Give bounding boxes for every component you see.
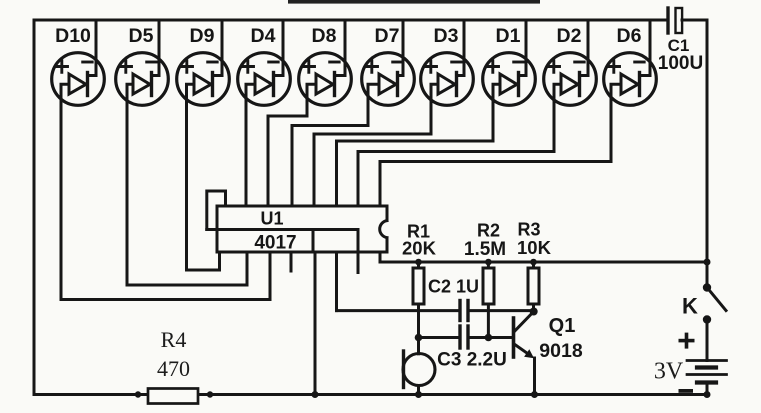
LED D7: [362, 25, 415, 105]
svg-text:C3 2.2U: C3 2.2U: [437, 350, 507, 371]
wire: cathode of D6 to top bus: [640, 20, 651, 76]
svg-text:D9: D9: [190, 25, 215, 47]
node right rail / R-rail: [704, 259, 711, 266]
node mic ground: [415, 391, 422, 398]
wire: cathode of D8 to top bus: [335, 20, 346, 76]
wire: U1 pin to R-rail: [380, 252, 707, 262]
node battery ground: [704, 391, 711, 398]
svg-text:U1: U1: [260, 209, 283, 229]
svg-text:D8: D8: [312, 25, 337, 47]
wire: U1 pin to ground rail: [314, 252, 317, 395]
battery BT1 3V: [654, 333, 727, 393]
wire: cathode of D5 to top bus: [152, 20, 160, 76]
node emitter ground: [531, 391, 538, 398]
transistor Q1 9018: [514, 312, 583, 363]
node R4 right lead: [207, 391, 213, 397]
node R3 top: [530, 259, 537, 266]
wire: anode of D4 to U1: [246, 84, 255, 206]
wire: cathode of D4 to top bus: [274, 20, 284, 76]
svg-text:1.5M: 1.5M: [464, 239, 506, 260]
wire: U1 unconnected pin stub: [290, 252, 293, 271]
LED D8: [299, 25, 352, 105]
microphone MIC: [403, 351, 435, 388]
node R1 top: [415, 259, 422, 266]
node R4 left lead: [135, 391, 141, 397]
wire: battery to ground rail: [706, 383, 709, 395]
node R2 top: [485, 259, 492, 266]
wire: cathode of D3 to top bus: [457, 20, 465, 76]
LED D6: [604, 25, 657, 105]
wire: cathode of D7 to top bus: [398, 20, 404, 76]
LED D4: [238, 25, 291, 105]
resistor R4: [148, 327, 198, 404]
svg-text:D3: D3: [434, 25, 459, 47]
svg-text:470: 470: [157, 356, 190, 381]
svg-text:D5: D5: [129, 25, 154, 47]
wire: left border rail: [33, 20, 36, 395]
wire: U1 pin down to C2 net: [335, 252, 338, 311]
wire: anode of D6 to U1: [380, 84, 621, 206]
svg-text:9018: 9018: [539, 340, 583, 362]
resistor R2: [464, 221, 506, 338]
LED D5: [116, 25, 169, 105]
wire: cathode of D2 to top bus: [580, 20, 589, 76]
LED D9: [177, 25, 230, 105]
capacitor C2: [428, 277, 479, 321]
wire: anode of D8 to U1: [268, 84, 316, 206]
wire: mic to ground rail: [417, 386, 420, 395]
svg-text:C2 1U: C2 1U: [428, 277, 479, 297]
node switch upper terminal: [703, 283, 711, 291]
LED D3: [421, 25, 474, 105]
node switch lower terminal: [703, 315, 711, 323]
op IC U1 4017: [207, 206, 389, 273]
resistor R3: [517, 220, 552, 312]
capacitor C3: [437, 326, 507, 371]
wire: anode of D10 to U1: [61, 84, 270, 299]
svg-text:Q1: Q1: [549, 315, 576, 337]
node U1 ground: [312, 391, 319, 398]
svg-text:4017: 4017: [254, 233, 296, 254]
wire: anode of D9 to U1: [187, 84, 220, 270]
svg-text:D4: D4: [251, 25, 276, 47]
node R2-C3-base: [485, 334, 493, 342]
svg-text:D1: D1: [496, 25, 521, 47]
svg-text:10K: 10K: [517, 237, 552, 258]
capacitor C1: [658, 8, 703, 74]
LED D2: [544, 25, 597, 105]
svg-text:100U: 100U: [658, 53, 703, 74]
switch K: [682, 262, 726, 319]
wire: anode of D5 to U1: [127, 84, 247, 285]
resistor R1: [402, 222, 437, 354]
wire: C2 net: [337, 309, 534, 312]
svg-text:20K: 20K: [402, 238, 437, 259]
svg-text:R4: R4: [161, 327, 187, 352]
svg-text:D2: D2: [557, 25, 582, 47]
wire: top supply bus: [34, 19, 667, 22]
wire: anode of D1 to U1: [337, 84, 501, 206]
svg-text:D10: D10: [55, 25, 91, 47]
node collector: [530, 308, 538, 316]
wire: anode of D7 to U1: [292, 84, 379, 206]
wire: cathode of D1 to top bus: [519, 20, 527, 76]
wire: C1 to right rail: [682, 20, 707, 262]
wire: anode of D2 to U1: [358, 84, 561, 206]
svg-text:R2: R2: [477, 221, 500, 241]
svg-text:3V: 3V: [654, 359, 684, 385]
wire: cathode of D9 to top bus: [213, 20, 223, 76]
wire: U1 top-left staple loop: [207, 191, 226, 230]
node R1-C3-mic: [415, 334, 423, 342]
wire: emitter to ground rail: [533, 358, 536, 395]
wire: switch to battery: [706, 320, 709, 361]
cropped title bar: [288, 0, 540, 4]
wire: bottom ground rail: [34, 393, 707, 396]
svg-text:K: K: [682, 294, 698, 319]
svg-text:D7: D7: [375, 25, 400, 47]
LED D10: [52, 25, 105, 105]
wire: C3 base net: [419, 336, 513, 339]
wire: anode of D3 to U1: [314, 84, 438, 206]
svg-text:D6: D6: [617, 25, 642, 47]
LED D1: [483, 25, 536, 105]
wire: cathode of D10 to top bus: [88, 20, 97, 76]
